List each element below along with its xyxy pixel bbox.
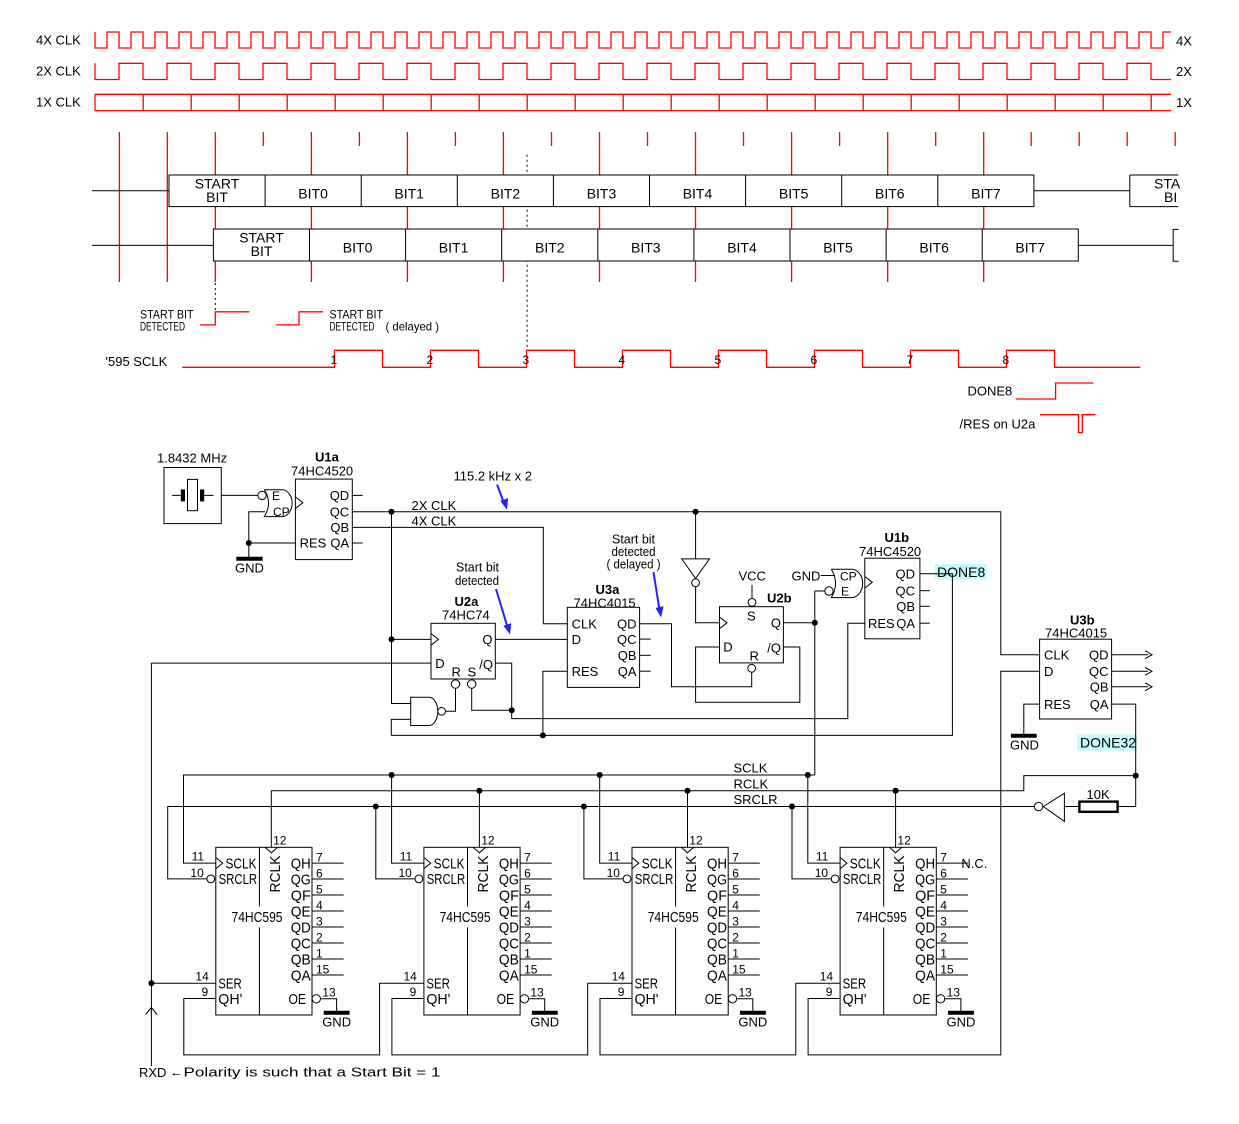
- svg-text:D: D: [572, 632, 581, 647]
- svg-text:SCLK: SCLK: [226, 855, 257, 872]
- svg-text:14: 14: [404, 969, 418, 983]
- svg-text:3: 3: [940, 914, 947, 928]
- svg-text:QB: QB: [618, 648, 637, 663]
- wire U3b QA (DONE32) down to RCLK net: [1024, 704, 1136, 806]
- svg-text:QH': QH': [426, 991, 450, 1008]
- wire U2a S bubble to /Q net: [472, 688, 512, 710]
- svg-text:D: D: [723, 640, 732, 655]
- svg-text:1X: 1X: [1176, 95, 1192, 110]
- svg-text:8: 8: [1003, 353, 1010, 367]
- svg-text:GND: GND: [738, 1014, 767, 1029]
- svg-text:3: 3: [316, 914, 323, 928]
- svg-text:74HC74: 74HC74: [442, 608, 490, 623]
- svg-text:BIT3: BIT3: [587, 186, 617, 202]
- svg-text:DETECTED: DETECTED: [140, 319, 185, 333]
- svg-text:74HC595: 74HC595: [648, 909, 699, 926]
- svg-text:5: 5: [316, 882, 323, 896]
- svg-text:GND: GND: [322, 1014, 351, 1029]
- svg-text:QB: QB: [896, 599, 915, 614]
- node U2a S input bubble: [468, 680, 476, 688]
- svg-text:CP: CP: [273, 505, 290, 519]
- svg-text:6: 6: [811, 353, 818, 367]
- svg-text:5: 5: [940, 882, 947, 896]
- svg-text:RES: RES: [572, 664, 599, 679]
- svg-text:13: 13: [530, 985, 544, 999]
- shift register U6 74HC595 #2: [424, 847, 520, 1015]
- wire U1a CP and RES to ground: [249, 512, 296, 558]
- svg-text:QH': QH': [843, 991, 867, 1008]
- svg-text:OE: OE: [289, 991, 307, 1008]
- pin 74HC595 #4 SCLK (11): [840, 858, 847, 869]
- svg-text:12: 12: [689, 833, 703, 847]
- svg-text:Polarity is such that a Start: Polarity is such that a Start Bit = 1: [184, 1065, 441, 1080]
- svg-text:RCLK: RCLK: [891, 856, 908, 893]
- svg-text:QG: QG: [707, 871, 727, 888]
- svg-text:RES: RES: [300, 536, 327, 551]
- svg-text:9: 9: [618, 985, 625, 999]
- wire 4X CLK waveform: [95, 32, 1171, 48]
- svg-text:QH: QH: [291, 855, 311, 872]
- svg-text:/RES on U2a: /RES on U2a: [960, 417, 1037, 432]
- svg-text:BIT2: BIT2: [535, 240, 565, 256]
- svg-text:BIT5: BIT5: [779, 186, 809, 202]
- svg-text:2: 2: [732, 930, 739, 944]
- svg-text:RCLK: RCLK: [475, 856, 492, 893]
- svg-text:7: 7: [732, 850, 739, 864]
- svg-text:10K: 10K: [1087, 787, 1110, 802]
- svg-text:4X: 4X: [1176, 34, 1192, 49]
- svg-text:QA: QA: [291, 967, 311, 984]
- svg-text:CP: CP: [840, 570, 857, 584]
- svg-text:10: 10: [190, 866, 204, 880]
- svg-text:QE: QE: [291, 903, 311, 920]
- svg-text:11: 11: [608, 850, 621, 864]
- svg-text:CLK: CLK: [572, 617, 598, 632]
- svg-text:13: 13: [322, 985, 336, 999]
- svg-text:5: 5: [524, 882, 531, 896]
- svg-text:RCLK: RCLK: [267, 856, 284, 893]
- pin 74HC595 #3 RCLK (12): [681, 847, 693, 853]
- wire /RES on U2a glitch pulse: [1040, 415, 1096, 433]
- svg-text:SRCLR: SRCLR: [635, 871, 674, 888]
- svg-text:QC: QC: [896, 583, 916, 598]
- svg-text:14: 14: [612, 969, 626, 983]
- svg-text:7: 7: [940, 850, 947, 864]
- svg-text:3: 3: [732, 914, 739, 928]
- svg-text:QH': QH': [218, 991, 242, 1008]
- wire frame row1 tail line: [1034, 190, 1130, 192]
- svg-text:VCC: VCC: [739, 569, 766, 584]
- svg-text:R: R: [750, 648, 759, 663]
- svg-text:7: 7: [907, 353, 914, 367]
- wire SRCLR drop to 595 #2: [376, 807, 416, 879]
- pin 74HC595 #2 RCLK (12): [473, 847, 485, 853]
- svg-text:QH: QH: [499, 855, 519, 872]
- svg-text:BIT4: BIT4: [683, 186, 713, 202]
- wire RXD to U2a D and 595 #1 SER: [151, 663, 215, 1066]
- pin 74HC595 #4 SRCLR (10): [831, 875, 839, 883]
- svg-text:'595 SCLK: '595 SCLK: [106, 354, 168, 369]
- svg-text:QB: QB: [330, 520, 349, 535]
- svg-text:GND: GND: [1010, 738, 1039, 753]
- svg-text:BIT2: BIT2: [491, 186, 521, 202]
- svg-text:QA: QA: [1090, 697, 1109, 712]
- wire blue arrow to U2a Q net: [496, 589, 508, 627]
- svg-text:RES: RES: [868, 616, 895, 631]
- svg-text:QB: QB: [707, 951, 727, 968]
- ground below U1a: [236, 557, 262, 561]
- wire 2X CLK net from U1a QC: [352, 512, 1039, 655]
- svg-text:14: 14: [195, 969, 209, 983]
- svg-text:1.8432 MHz: 1.8432 MHz: [157, 451, 227, 466]
- svg-text:QG: QG: [499, 871, 519, 888]
- svg-text:RES: RES: [1044, 697, 1071, 712]
- inverter from 2X CLK to U2b clock: [695, 512, 697, 559]
- svg-text:QE: QE: [915, 903, 935, 920]
- nand gate driving U2a R: [411, 697, 438, 725]
- svg-text:SCLK: SCLK: [642, 855, 673, 872]
- svg-text:4X CLK: 4X CLK: [36, 33, 81, 48]
- wire U3a QD to U2b R bubble: [640, 624, 752, 687]
- svg-text:OE: OE: [497, 991, 514, 1008]
- wire START BIT DETECTED delayed pulse: [276, 312, 323, 325]
- svg-text:( delayed ): ( delayed ): [386, 319, 440, 333]
- svg-text:2X CLK: 2X CLK: [36, 64, 81, 79]
- svg-text:OE: OE: [913, 991, 931, 1008]
- svg-text:115.2 kHz x 2: 115.2 kHz x 2: [454, 469, 533, 484]
- svg-text:DETECTED: DETECTED: [330, 319, 375, 333]
- wire NAND output to U2a R bubble: [446, 688, 456, 711]
- wire blue arrow to U3a QD net: [654, 572, 660, 610]
- pin 74HC595 #2 SRCLR (10): [415, 875, 423, 883]
- svg-text:QA: QA: [330, 536, 349, 551]
- svg-text:14: 14: [820, 969, 834, 983]
- svg-text:5: 5: [732, 882, 739, 896]
- svg-text:4: 4: [940, 898, 947, 912]
- svg-text:GND: GND: [792, 569, 821, 584]
- svg-text:QD: QD: [330, 488, 350, 503]
- svg-text:6: 6: [940, 866, 947, 880]
- svg-text:QE: QE: [499, 903, 519, 920]
- svg-text:3: 3: [523, 353, 530, 367]
- svg-text:12: 12: [897, 833, 911, 847]
- svg-text:QC: QC: [707, 935, 727, 952]
- svg-text:DONE8: DONE8: [937, 564, 985, 580]
- svg-text:QB: QB: [291, 951, 311, 968]
- wire START BIT DETECTED pulse: [200, 312, 250, 325]
- svg-text:QD: QD: [896, 567, 916, 582]
- svg-text:DONE8: DONE8: [968, 384, 1013, 399]
- svg-text:SRCLR: SRCLR: [734, 792, 778, 807]
- wire frame row2 tail line: [1078, 244, 1173, 246]
- svg-text:QD: QD: [915, 919, 935, 936]
- svg-text:QF: QF: [291, 887, 311, 904]
- svg-text:QA: QA: [707, 967, 727, 984]
- svg-text:10: 10: [607, 866, 621, 880]
- svg-text:11: 11: [400, 850, 413, 864]
- shift register U8 74HC595 #4: [840, 847, 936, 1015]
- svg-text:E: E: [841, 585, 849, 599]
- svg-text:BI: BI: [1164, 189, 1177, 205]
- wire U2a D input from RXD: [151, 662, 431, 664]
- svg-text:QC: QC: [617, 632, 637, 647]
- svg-text:74HC4015: 74HC4015: [574, 596, 636, 611]
- wire RCLK drop to 595 #4: [895, 791, 897, 848]
- svg-text:SRCLR: SRCLR: [219, 871, 258, 888]
- shift register U7 74HC595 #3: [632, 847, 728, 1015]
- node U2a R input bubble: [451, 680, 459, 688]
- svg-text:SRCLR: SRCLR: [843, 871, 882, 888]
- svg-text:QB: QB: [499, 951, 519, 968]
- svg-text:Q: Q: [771, 616, 781, 631]
- svg-text:13: 13: [739, 985, 753, 999]
- svg-text:QA: QA: [915, 967, 935, 984]
- wire dotted guide at BIT2 (x=527): [526, 155, 528, 348]
- wire SCLK drop to 595 #3: [600, 775, 632, 863]
- svg-text:R: R: [452, 665, 461, 680]
- wire U1b QD (DONE8) to U3a RES / NAND B: [391, 574, 952, 736]
- svg-text:QA: QA: [896, 616, 915, 631]
- svg-text:QD: QD: [1089, 648, 1109, 663]
- wire SCLK net: [184, 775, 815, 863]
- svg-text:74HC4015: 74HC4015: [1045, 626, 1107, 641]
- shift register U5 74HC595 #1: [216, 847, 312, 1015]
- svg-text:1: 1: [732, 946, 739, 960]
- svg-text:4X CLK: 4X CLK: [412, 513, 457, 528]
- svg-text:12: 12: [273, 833, 287, 847]
- svg-text:/Q: /Q: [767, 641, 781, 656]
- svg-text:1: 1: [940, 946, 947, 960]
- svg-text:BIT1: BIT1: [394, 186, 424, 202]
- svg-text:74HC595: 74HC595: [856, 909, 907, 926]
- svg-text:QC: QC: [1089, 664, 1109, 679]
- svg-text:BIT3: BIT3: [631, 240, 661, 256]
- svg-text:SCLK: SCLK: [734, 761, 768, 776]
- svg-text:BIT1: BIT1: [439, 240, 469, 256]
- svg-text:15: 15: [940, 962, 954, 976]
- pin 74HC595 #3 SCLK (11): [632, 858, 639, 869]
- svg-text:BIT7: BIT7: [1015, 240, 1045, 256]
- wire U2b Q to U1b E and SCLK: [783, 591, 824, 775]
- wire SCLK drop to 595 #2: [392, 775, 424, 863]
- wire 2X CLK waveform: [95, 63, 1171, 79]
- svg-text:QD: QD: [617, 617, 637, 632]
- wire '595 SCLK waveform: [182, 350, 1140, 367]
- wire U3a RES to DONE8 line: [543, 671, 567, 735]
- svg-text:74HC4520: 74HC4520: [291, 464, 353, 479]
- svg-text:4: 4: [619, 353, 626, 367]
- svg-text:SCLK: SCLK: [850, 855, 881, 872]
- svg-text:GND: GND: [235, 561, 264, 576]
- svg-text:QF: QF: [499, 887, 519, 904]
- svg-text:QF: QF: [707, 887, 727, 904]
- wire U2a /Q feedback to U1b RES: [495, 623, 865, 718]
- wire 1X CLK bus waveform: [95, 94, 1171, 110]
- svg-text:BIT0: BIT0: [343, 240, 373, 256]
- svg-text:BIT4: BIT4: [727, 240, 757, 256]
- svg-text:1X CLK: 1X CLK: [36, 95, 81, 110]
- svg-text:SCLK: SCLK: [434, 855, 465, 872]
- svg-text:BIT: BIT: [251, 243, 273, 259]
- node DONE32 net label: [1077, 735, 1137, 751]
- svg-text:7: 7: [316, 850, 323, 864]
- wire NAND input B from DONE8 line: [391, 719, 410, 735]
- wire SRCLR drop to 595 #4: [792, 807, 832, 879]
- wire U3b RES to ground: [1024, 704, 1040, 734]
- svg-text:15: 15: [524, 962, 538, 976]
- svg-text:QF: QF: [915, 887, 935, 904]
- svg-text:D: D: [435, 656, 444, 671]
- svg-text:GND: GND: [947, 1014, 976, 1029]
- svg-text:Q: Q: [482, 632, 492, 647]
- svg-text:QC: QC: [915, 935, 935, 952]
- svg-text:74HC4520: 74HC4520: [859, 544, 921, 559]
- svg-text:detected: detected: [455, 573, 499, 588]
- svg-text:6: 6: [732, 866, 739, 880]
- svg-text:/Q: /Q: [479, 657, 493, 672]
- svg-text:BIT: BIT: [206, 189, 228, 205]
- svg-text:( delayed ): ( delayed ): [607, 557, 661, 572]
- node U1b E/CP gate shape: [831, 569, 862, 597]
- svg-text:2: 2: [316, 930, 323, 944]
- svg-text:11: 11: [816, 850, 829, 864]
- svg-text:QB: QB: [915, 951, 935, 968]
- svg-text:12: 12: [481, 833, 495, 847]
- wire U2b /Q to D loop: [696, 647, 800, 702]
- wire red sample tick lines (long): [119, 132, 983, 282]
- wire RCLK drop to 595 #2: [478, 791, 480, 848]
- svg-text:7: 7: [524, 850, 531, 864]
- node frame row2 cells START BIT / BIT0-BIT7: [213, 229, 1078, 261]
- svg-text:SRCLR: SRCLR: [427, 871, 466, 888]
- svg-text:1: 1: [331, 353, 338, 367]
- node U2b R bubble: [748, 664, 756, 672]
- svg-text:6: 6: [524, 866, 531, 880]
- node U1b E input bubble: [825, 587, 833, 595]
- svg-text:6: 6: [316, 866, 323, 880]
- wire RCLK net: [271, 791, 1024, 848]
- svg-text:2X CLK: 2X CLK: [412, 498, 457, 513]
- wire crystal output to U1a E input: [221, 494, 258, 496]
- svg-text:CLK: CLK: [1044, 648, 1070, 663]
- svg-text:E: E: [272, 489, 280, 503]
- wire SRCLR net: [168, 807, 1034, 879]
- svg-text:1: 1: [524, 946, 531, 960]
- wire 4X CLK net from U1a QB: [352, 527, 567, 623]
- svg-text:QG: QG: [915, 871, 935, 888]
- svg-text:QH: QH: [707, 855, 727, 872]
- wire blue arrow to 2X CLK line: [497, 485, 504, 504]
- svg-text:2X: 2X: [1176, 64, 1192, 79]
- svg-text:QD: QD: [707, 919, 727, 936]
- ground below U3b RES: [1011, 734, 1037, 738]
- node frame row1 next START BIT box (clipped): [1130, 175, 1179, 207]
- svg-text:QH': QH': [635, 991, 659, 1008]
- svg-text:QD: QD: [499, 919, 519, 936]
- wire RCLK drop to 595 #3: [687, 791, 689, 848]
- inverter driving SRCLR: [1064, 806, 1079, 808]
- svg-text:U1a: U1a: [315, 450, 340, 465]
- svg-text:2: 2: [524, 930, 531, 944]
- pin 74HC595 #4 RCLK (12): [889, 847, 901, 853]
- svg-text:9: 9: [410, 985, 417, 999]
- svg-text:4: 4: [732, 898, 739, 912]
- node frame row1 cells START BIT / BIT0-BIT7: [169, 175, 1034, 207]
- wire QH' of 595 #1 to SER of 595 #2: [184, 983, 424, 1055]
- svg-text:9: 9: [826, 985, 833, 999]
- svg-text:S: S: [747, 608, 756, 623]
- svg-text:QB: QB: [1090, 680, 1109, 695]
- svg-text:QD: QD: [291, 919, 311, 936]
- svg-text:QC: QC: [291, 935, 311, 952]
- svg-text:9: 9: [202, 985, 209, 999]
- svg-text:15: 15: [316, 962, 330, 976]
- svg-text:74HC595: 74HC595: [440, 909, 491, 926]
- svg-text:S: S: [468, 665, 477, 680]
- svg-text:QC: QC: [330, 504, 350, 519]
- svg-text:74HC595: 74HC595: [232, 909, 283, 926]
- wire 2X CLK down to U2a clock and NAND input A: [392, 512, 432, 704]
- svg-text:2: 2: [940, 930, 947, 944]
- svg-text:10: 10: [399, 866, 413, 880]
- wire frame row2 lead-in line: [92, 244, 213, 246]
- svg-text:10: 10: [815, 866, 829, 880]
- svg-text:4: 4: [524, 898, 531, 912]
- wire QH' of 595 #2 to SER of 595 #3: [392, 983, 632, 1055]
- svg-text:U2b: U2b: [767, 591, 792, 606]
- wire red sample tick lines (short): [263, 132, 1175, 146]
- pin 74HC595 #1 RCLK (12): [265, 847, 277, 853]
- pin 74HC595 #3 SRCLR (10): [623, 875, 631, 883]
- svg-text:RCLK: RCLK: [734, 776, 769, 791]
- svg-text:U1b: U1b: [885, 530, 910, 545]
- wire SRCLR drop to 595 #3: [584, 807, 624, 879]
- pin 74HC595 #1 SRCLR (10): [207, 875, 215, 883]
- svg-text:GND: GND: [530, 1014, 559, 1029]
- svg-text:QA: QA: [618, 664, 637, 679]
- svg-text:QH: QH: [915, 855, 935, 872]
- svg-text:RCLK: RCLK: [683, 856, 700, 893]
- wire DONE8 rising signal: [1016, 383, 1093, 399]
- wire QH' of 595 #4 to U3b D input: [808, 671, 1040, 1055]
- svg-text:2: 2: [427, 353, 434, 367]
- node DONE8 net label: [935, 564, 988, 580]
- svg-text:BIT7: BIT7: [971, 186, 1001, 202]
- svg-text:15: 15: [732, 962, 746, 976]
- svg-text:5: 5: [715, 353, 722, 367]
- svg-text:11: 11: [192, 850, 205, 864]
- svg-text:DONE32: DONE32: [1080, 735, 1136, 751]
- svg-text:1: 1: [316, 946, 323, 960]
- svg-text:QC: QC: [499, 935, 519, 952]
- svg-text:←: ←: [170, 1065, 183, 1080]
- node U1a E input bubble: [258, 491, 266, 499]
- wire QH' of 595 #3 to SER of 595 #4: [600, 983, 840, 1055]
- svg-text:3: 3: [524, 914, 531, 928]
- svg-text:N.C.: N.C.: [961, 856, 987, 871]
- svg-text:QA: QA: [499, 967, 519, 984]
- svg-text:RXD: RXD: [139, 1065, 166, 1080]
- wire U2a Q to U3a D: [495, 638, 567, 640]
- node RXD direction arrowhead: [146, 1008, 158, 1015]
- svg-text:BIT6: BIT6: [919, 240, 949, 256]
- svg-text:QE: QE: [707, 903, 727, 920]
- pin 74HC595 #2 SCLK (11): [424, 858, 431, 869]
- svg-text:BIT5: BIT5: [823, 240, 853, 256]
- node U1a E/CP gate shape: [264, 490, 292, 517]
- svg-text:13: 13: [947, 985, 961, 999]
- svg-text:BIT0: BIT0: [298, 186, 328, 202]
